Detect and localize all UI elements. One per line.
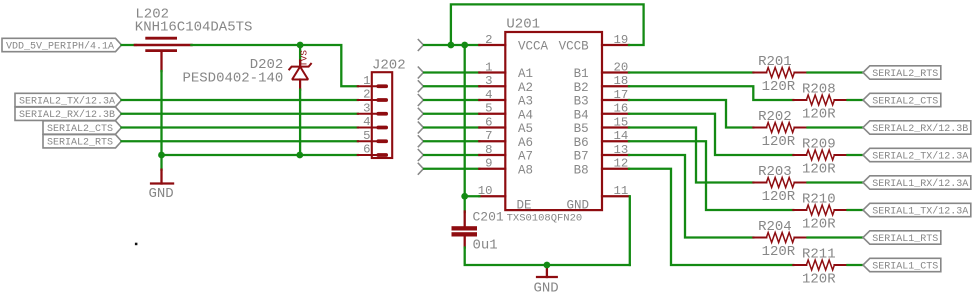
- svg-text:SERIAL2_RX/12.3B: SERIAL2_RX/12.3B: [872, 123, 968, 135]
- resistor R210: [793, 205, 847, 215]
- wire L202 to corner above J202 pin 1: [191, 45, 357, 86]
- wire stub into U201 pin 1 with chevron: [418, 67, 480, 79]
- resistor R208: [793, 95, 847, 105]
- wire stub into U201 pin 3 with chevron: [418, 80, 480, 92]
- ground GND middle: [536, 265, 558, 277]
- svg-text:3: 3: [363, 101, 370, 115]
- svg-text:16: 16: [614, 102, 629, 116]
- resistor R211: [793, 260, 847, 270]
- wire R201 to flag: [808, 71, 864, 73]
- pin 17 U201 right: [602, 99, 629, 101]
- capacitor C201: [452, 212, 478, 248]
- pin 2 U201 left: [479, 44, 505, 46]
- svg-text:15: 15: [614, 115, 629, 129]
- svg-text:13: 13: [614, 143, 629, 157]
- svg-text:4: 4: [363, 115, 370, 129]
- wire U201 pin 16 to resistor: [629, 114, 793, 155]
- pin 4 U201 left: [479, 99, 505, 101]
- wire stub into U201 pin 7 with chevron: [418, 135, 480, 147]
- svg-text:5: 5: [363, 129, 370, 143]
- wire R211 to flag: [848, 264, 864, 266]
- pin 6 U201 left: [479, 126, 505, 128]
- pin 4 J202: [358, 126, 388, 130]
- svg-text:2: 2: [485, 33, 492, 47]
- net flag SERIAL2_RTS: [863, 66, 941, 79]
- svg-text:120R: 120R: [762, 134, 796, 150]
- pin 3 U201 left: [479, 85, 505, 87]
- resistor R203: [753, 178, 807, 188]
- net flag SERIAL2_RX/12.3B: [15, 107, 122, 120]
- net flag SERIAL1_RTS: [863, 231, 941, 244]
- net flag SERIAL2_RX/12.3B: [863, 121, 971, 134]
- wire R209 to flag: [848, 154, 864, 156]
- svg-text:0u1: 0u1: [473, 238, 498, 254]
- svg-text:R210: R210: [802, 192, 836, 208]
- svg-text:R203: R203: [758, 164, 792, 180]
- svg-text:A8: A8: [518, 163, 533, 177]
- svg-text:B2: B2: [574, 81, 589, 95]
- wire stub into U201 pin 2 with chevron: [418, 39, 480, 51]
- net flag SERIAL1_RX/12.3A: [863, 176, 971, 189]
- svg-text:B3: B3: [574, 95, 589, 109]
- pin 19 U201 right: [602, 44, 629, 46]
- pin 20 U201 right: [602, 71, 629, 73]
- wire U201 pin 12 to resistor: [629, 169, 793, 265]
- svg-text:DE: DE: [517, 198, 532, 212]
- svg-text:C201: C201: [473, 210, 504, 225]
- pin 14 U201 right: [602, 140, 629, 142]
- pin 5 J202: [358, 139, 388, 143]
- svg-text:120R: 120R: [762, 79, 796, 95]
- pin 18 U201 right: [602, 85, 629, 87]
- svg-text:17: 17: [614, 88, 629, 102]
- svg-text:6: 6: [485, 115, 492, 129]
- net flag SERIAL2_TX/12.3A: [863, 148, 971, 161]
- svg-text:PESD0402-140: PESD0402-140: [182, 70, 283, 86]
- svg-text:14: 14: [614, 129, 629, 143]
- wire R210 to flag: [848, 209, 864, 211]
- net flag SERIAL2_CTS: [43, 121, 122, 134]
- svg-text:A1: A1: [518, 67, 533, 81]
- wire R208 to flag: [848, 99, 864, 101]
- svg-text:SERIAL2_TX/12.3A: SERIAL2_TX/12.3A: [19, 95, 115, 107]
- ground GND left: [150, 155, 174, 184]
- resistor R209: [793, 150, 847, 160]
- pin 9 U201 left: [479, 168, 505, 170]
- wire DE stub: [465, 195, 480, 197]
- svg-text:VCCB: VCCB: [559, 40, 590, 54]
- wire U201 pin 13 to resistor: [629, 155, 753, 238]
- svg-text:B1: B1: [574, 67, 589, 81]
- wire SERIAL2_TX/12.3A to J202: [122, 99, 358, 101]
- svg-text:B4: B4: [574, 108, 589, 122]
- svg-text:B5: B5: [574, 122, 589, 136]
- pin 3 J202: [358, 112, 388, 116]
- pin 2 J202: [358, 98, 388, 102]
- stray dot: [135, 243, 138, 246]
- svg-text:1: 1: [363, 74, 370, 88]
- svg-text:A7: A7: [518, 150, 533, 164]
- wire U201 pin 15 to resistor: [629, 128, 753, 183]
- wire R202 to flag: [808, 126, 864, 128]
- svg-text:120R: 120R: [802, 272, 836, 288]
- svg-text:VCCA: VCCA: [518, 40, 549, 54]
- svg-text:SERIAL2_RTS: SERIAL2_RTS: [47, 138, 113, 149]
- svg-text:SERIAL2_RTS: SERIAL2_RTS: [872, 69, 938, 80]
- wire DE junction down to C201: [464, 196, 466, 212]
- resistor R201: [753, 68, 807, 78]
- pin 1 U201 left: [479, 71, 505, 73]
- svg-text:R208: R208: [802, 82, 836, 98]
- svg-text:12: 12: [614, 157, 629, 171]
- svg-text:R204: R204: [758, 219, 792, 235]
- svg-text:GND: GND: [149, 186, 174, 202]
- wire stub into U201 pin 6 with chevron: [418, 122, 480, 134]
- pin 7 U201 left: [479, 140, 505, 142]
- svg-text:1: 1: [485, 60, 492, 74]
- svg-text:SERIAL2_CTS: SERIAL2_CTS: [47, 124, 113, 135]
- pin 12 U201 right: [602, 168, 629, 170]
- inductor L202 (feedthrough filter): [135, 38, 191, 71]
- wire VCCB loop pin 19 to VCCA net: [451, 4, 644, 45]
- pin 10 U201 left: [479, 195, 505, 197]
- svg-text:4: 4: [485, 88, 492, 102]
- wire C201 to ground run: [465, 248, 630, 266]
- wire stub into U201 pin 4 with chevron: [418, 94, 480, 106]
- svg-text:5: 5: [485, 102, 492, 116]
- svg-text:SERIAL1_TX/12.3A: SERIAL1_TX/12.3A: [872, 205, 968, 217]
- svg-text:TVS: TVS: [299, 50, 310, 67]
- net flag SERIAL2_RTS: [43, 135, 122, 148]
- wire SERIAL2_RTS to J202: [122, 140, 358, 142]
- svg-text:SERIAL2_RX/12.3B: SERIAL2_RX/12.3B: [19, 109, 115, 121]
- svg-text:6: 6: [363, 143, 370, 157]
- svg-text:B6: B6: [574, 136, 589, 150]
- pin 11 U201 right: [602, 195, 629, 197]
- svg-text:3: 3: [485, 74, 492, 88]
- svg-text:2: 2: [363, 88, 370, 102]
- svg-text:120R: 120R: [802, 162, 836, 178]
- resistor R202: [753, 123, 807, 133]
- svg-text:R202: R202: [758, 109, 792, 125]
- svg-text:120R: 120R: [802, 107, 836, 123]
- wire stub into U201 pin 8 with chevron: [418, 149, 480, 161]
- svg-text:GND: GND: [566, 198, 589, 212]
- net flag VDD_5V_PERIPH/4.1A: [2, 38, 122, 51]
- svg-text:SERIAL2_TX/12.3A: SERIAL2_TX/12.3A: [872, 150, 968, 162]
- svg-text:8: 8: [485, 143, 492, 157]
- svg-text:TXS0108QFN20: TXS0108QFN20: [507, 212, 583, 224]
- junction dots layer: [158, 42, 550, 269]
- svg-text:9: 9: [485, 157, 492, 171]
- wire U201 pin 14 to resistor: [629, 141, 793, 210]
- pin 6 J202: [358, 153, 388, 157]
- svg-text:A2: A2: [518, 81, 533, 95]
- pin 15 U201 right: [602, 126, 629, 128]
- svg-text:R201: R201: [758, 54, 792, 70]
- svg-text:120R: 120R: [802, 217, 836, 233]
- svg-text:R211: R211: [802, 247, 836, 263]
- net flag SERIAL1_TX/12.3A: [863, 203, 971, 216]
- svg-text:U201: U201: [506, 17, 540, 33]
- wire D202 top pin: [299, 45, 301, 62]
- wire VDD flag to L202: [122, 44, 137, 46]
- net flag SERIAL1_CTS: [863, 258, 941, 271]
- wire U201 pin 18 to resistor: [629, 86, 793, 100]
- svg-text:7: 7: [485, 129, 492, 143]
- svg-text:KNH16C104DA5TS: KNH16C104DA5TS: [135, 19, 253, 35]
- svg-text:B8: B8: [574, 163, 589, 177]
- pin 5 U201 left: [479, 113, 505, 115]
- resistor R204: [753, 233, 807, 243]
- svg-text:20: 20: [614, 60, 629, 74]
- svg-text:GND: GND: [534, 281, 559, 297]
- diode D202 TVS: [289, 61, 312, 90]
- wire U201 pin 20 to resistor: [629, 71, 753, 73]
- pin 16 U201 right: [602, 113, 629, 115]
- wire R204 to flag: [808, 236, 864, 238]
- svg-text:SERIAL1_CTS: SERIAL1_CTS: [872, 261, 938, 272]
- net flag SERIAL2_CTS: [863, 93, 941, 106]
- svg-text:11: 11: [614, 184, 629, 198]
- svg-text:120R: 120R: [762, 189, 796, 205]
- svg-text:J202: J202: [372, 57, 406, 73]
- svg-text:B7: B7: [574, 150, 589, 164]
- svg-text:SERIAL1_RTS: SERIAL1_RTS: [872, 234, 938, 245]
- svg-text:A4: A4: [518, 108, 533, 122]
- pin 1 J202: [358, 84, 388, 88]
- svg-text:SERIAL2_CTS: SERIAL2_CTS: [872, 96, 938, 107]
- connector J202 body: [372, 72, 392, 158]
- svg-text:A3: A3: [518, 95, 533, 109]
- wire stub into U201 pin 5 with chevron: [418, 108, 480, 120]
- net flag SERIAL2_TX/12.3A: [15, 93, 122, 106]
- svg-text:SERIAL1_RX/12.3A: SERIAL1_RX/12.3A: [872, 178, 968, 190]
- wire D202 anode to ground rail: [299, 90, 301, 155]
- wire R203 to flag: [808, 181, 864, 183]
- wire U201 pin 17 to resistor: [629, 100, 753, 128]
- svg-text:R209: R209: [802, 137, 836, 153]
- pin 8 U201 left: [479, 154, 505, 156]
- svg-text:VDD_5V_PERIPH/4.1A: VDD_5V_PERIPH/4.1A: [6, 40, 114, 52]
- wire L202 stem to ground rail: [160, 71, 162, 155]
- wire SERIAL2_CTS to J202: [122, 126, 358, 128]
- svg-text:A5: A5: [518, 122, 533, 136]
- pin 13 U201 right: [602, 154, 629, 156]
- svg-text:120R: 120R: [762, 244, 796, 260]
- IC U201 body: [505, 32, 602, 210]
- svg-text:A6: A6: [518, 136, 533, 150]
- wire SERIAL2_RX/12.3B to J202: [122, 113, 358, 115]
- svg-text:19: 19: [614, 33, 629, 47]
- svg-text:18: 18: [614, 74, 629, 88]
- wire pin 11 down to ground run: [629, 196, 631, 265]
- wire ground rail to J202 pin 6: [162, 154, 358, 156]
- wire stub into U201 pin 9 with chevron: [418, 163, 480, 175]
- wire VCCA down to DE: [464, 45, 466, 196]
